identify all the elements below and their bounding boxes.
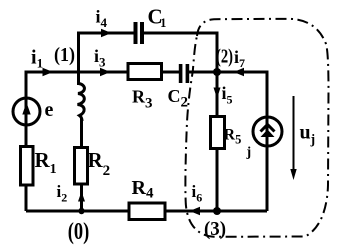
capacitor C2 plates [179, 64, 183, 83]
svg-text:C2: C2 [168, 86, 189, 111]
svg-text:i3: i3 [94, 46, 106, 70]
svg-text:e: e [45, 99, 54, 121]
resistor R2 [75, 148, 88, 185]
svg-text:(0): (0) [68, 219, 90, 245]
wire node1 down to coil [77, 72, 80, 85]
current source j double arrow [261, 125, 275, 132]
svg-text:i4: i4 [96, 7, 108, 31]
svg-text:R3: R3 [132, 87, 153, 112]
svg-text:i1: i1 [31, 47, 43, 71]
svg-text:R5: R5 [224, 127, 242, 147]
svg-text:j: j [246, 145, 252, 160]
wire coil to R2 to bottom [80, 118, 83, 211]
resistor R5 [211, 117, 225, 149]
wire left branch (e + R1) [26, 72, 79, 211]
svg-text:(2): (2) [216, 46, 233, 68]
svg-text:R2: R2 [88, 148, 111, 179]
voltage source e circle [13, 98, 40, 125]
arrow i2 [78, 192, 85, 202]
arrow i6 [190, 207, 201, 216]
svg-text:i7: i7 [234, 47, 245, 70]
dash-dot boundary [185, 19, 328, 237]
arrow i3 [100, 68, 111, 77]
wire C2 right plate to right branch corner and down [189, 72, 267, 211]
current source j circle [253, 117, 282, 146]
resistor R1 [21, 147, 34, 186]
resistor R3 [128, 64, 162, 80]
uj reference arrow [293, 96, 295, 172]
wire node2 down through R5 to bottom [216, 72, 219, 211]
svg-text:R1: R1 [35, 148, 57, 177]
wire main horizontal node1 to C2 left plate [79, 71, 180, 74]
node 3 junction dot [213, 207, 221, 215]
node 2 junction dot [213, 68, 221, 76]
svg-text:(3): (3) [204, 218, 226, 240]
wire C1 to node2 riser [144, 33, 218, 72]
arrow i4 [101, 29, 112, 38]
arrow i1 [43, 68, 54, 77]
wire bottom [26, 210, 267, 213]
wire top branch node1 riser to C1 [79, 33, 135, 73]
node 0 junction dot [78, 208, 84, 214]
arrow i5 [214, 88, 221, 99]
svg-text:i5: i5 [222, 83, 233, 107]
inductor coil L [78, 84, 85, 122]
svg-text:R4: R4 [132, 177, 154, 202]
capacitor C1 plates [134, 22, 138, 44]
arrow i7 [234, 68, 245, 77]
voltage source e arrow [22, 103, 30, 115]
svg-text:i2: i2 [57, 182, 68, 205]
svg-text:i6: i6 [192, 182, 203, 205]
svg-text:uj: uj [300, 122, 316, 147]
resistor R4 [129, 203, 165, 220]
svg-text:(1): (1) [54, 44, 75, 66]
svg-text:C1: C1 [148, 5, 167, 31]
